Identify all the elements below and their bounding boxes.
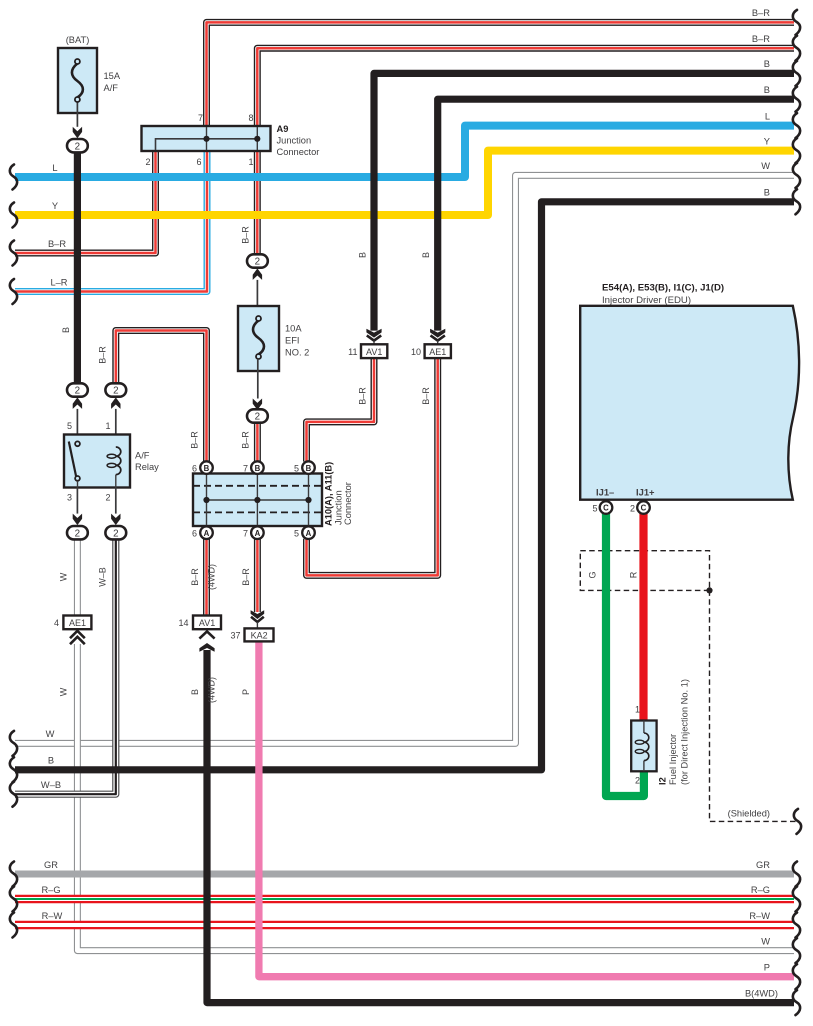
svg-text:(4WD): (4WD) xyxy=(207,677,217,703)
relay coil xyxy=(116,447,121,475)
wire L-R A9 pin6 net xyxy=(15,151,207,292)
connector oval 2 above EFI fuse xyxy=(247,254,268,267)
svg-text:3: 3 xyxy=(67,493,72,503)
svg-text:10: 10 xyxy=(411,347,421,357)
svg-text:W: W xyxy=(59,687,69,696)
fuse 10A EFI NO.2 xyxy=(238,306,279,371)
wire EFI fuse top lead xyxy=(256,280,258,316)
svg-text:B–R: B–R xyxy=(241,226,251,244)
svg-text:2: 2 xyxy=(630,504,635,514)
fuse element 10A EFI xyxy=(253,321,264,355)
svg-text:R–G: R–G xyxy=(751,885,770,895)
wire relay pin1 lead xyxy=(115,409,117,447)
svg-text:B: B xyxy=(48,756,54,766)
wire P net xyxy=(259,641,794,977)
break symbol B-R left xyxy=(10,241,17,266)
svg-text:2: 2 xyxy=(255,257,260,268)
svg-text:B–R: B–R xyxy=(752,34,770,44)
svg-text:2: 2 xyxy=(255,412,260,423)
svg-text:5: 5 xyxy=(67,421,72,431)
break symbol shield right xyxy=(794,809,801,834)
svg-text:B–R: B–R xyxy=(421,387,431,405)
svg-text:4: 4 xyxy=(54,618,59,628)
connector box 4 AE1 xyxy=(63,616,91,630)
break symbol R-G right xyxy=(793,887,800,912)
break symbol Y left xyxy=(10,203,17,228)
wire B-R 11AV1 to A10 5B xyxy=(307,358,375,461)
svg-text:B–R: B–R xyxy=(752,8,770,18)
wire G net xyxy=(606,513,644,796)
svg-text:C: C xyxy=(603,504,609,513)
svg-text:B–R: B–R xyxy=(48,239,66,249)
connector arrow into oval below BAT fuse xyxy=(73,127,82,139)
pin circle A10 5A xyxy=(302,526,315,539)
svg-text:L: L xyxy=(765,111,770,121)
svg-text:11: 11 xyxy=(348,347,357,357)
svg-text:R–G: R–G xyxy=(41,885,60,895)
wire relay pin5 lead xyxy=(76,409,78,442)
break symbol R-G left xyxy=(10,887,17,912)
svg-text:5: 5 xyxy=(294,529,299,539)
break symbol W left xyxy=(10,731,17,756)
connector arrow into oval relay pin3 xyxy=(73,514,82,526)
wire B-R EFI fuse to A10 7B xyxy=(254,423,261,462)
wire B to 10AE1 net xyxy=(438,99,794,330)
svg-text:R–W: R–W xyxy=(749,911,770,921)
junction connector A9 xyxy=(142,126,271,151)
svg-text:IJ1+: IJ1+ xyxy=(636,487,655,498)
svg-text:B–R: B–R xyxy=(98,346,108,364)
svg-text:Fuel Injector: Fuel Injector xyxy=(668,734,678,785)
injector coil xyxy=(644,733,649,761)
svg-text:P: P xyxy=(764,963,770,973)
wire B-R top2 net xyxy=(257,48,794,126)
pin circle EDU IJ1+ pin C xyxy=(637,501,650,514)
svg-text:Junction: Junction xyxy=(277,136,312,146)
svg-text:B–R: B–R xyxy=(190,568,200,586)
break symbol L left xyxy=(10,165,17,190)
svg-text:14: 14 xyxy=(178,618,188,628)
svg-text:5: 5 xyxy=(592,504,597,514)
wire A9 pin7 inner xyxy=(206,127,208,150)
connector double-arrow into 37KA2 xyxy=(251,610,265,619)
connector oval 2 below EFI fuse xyxy=(247,409,268,422)
svg-text:A/F: A/F xyxy=(135,451,150,461)
svg-text:B: B xyxy=(306,464,312,473)
wire A10 inner bus xyxy=(207,499,309,501)
wire W below 4AE1 net xyxy=(77,644,794,951)
junction dot A10 node 6 xyxy=(203,497,209,503)
svg-text:2: 2 xyxy=(75,386,80,397)
svg-text:B: B xyxy=(764,59,770,69)
svg-text:W: W xyxy=(59,572,69,581)
break symbol P right xyxy=(793,964,800,989)
wire B to 11AV1 net xyxy=(374,73,794,330)
wire B-R A9 pin1 to oval xyxy=(254,151,261,255)
wire B-R relay pin1 to A10 6B xyxy=(116,331,207,462)
connector double-arrow into 11AV1 xyxy=(366,329,381,338)
svg-text:B: B xyxy=(204,464,210,473)
junction dot A9 node pin7 xyxy=(203,136,209,142)
svg-text:B–R: B–R xyxy=(358,387,368,405)
svg-text:8: 8 xyxy=(248,113,253,123)
pin circle A10 6A xyxy=(200,526,213,539)
svg-text:R: R xyxy=(629,571,639,578)
svg-text:1: 1 xyxy=(635,705,640,715)
break symbol B(4WD) right xyxy=(793,990,800,1015)
pin circle A10 7B xyxy=(251,461,264,474)
junction dot A10 node 7 xyxy=(254,497,260,503)
junction dot shield junction xyxy=(706,587,712,593)
break symbol B right xyxy=(793,189,800,214)
connector box 10 AE1 xyxy=(425,344,451,358)
wire R-W net xyxy=(15,921,794,929)
break symbol B right xyxy=(793,87,800,112)
junction dot A9 node pin8 xyxy=(254,136,260,142)
svg-text:B: B xyxy=(61,327,71,333)
svg-text:A/F: A/F xyxy=(104,83,119,93)
connector oval 2 below relay pin3 xyxy=(67,526,88,539)
svg-text:G: G xyxy=(588,571,598,578)
svg-text:AE1: AE1 xyxy=(69,618,86,628)
svg-text:L–R: L–R xyxy=(50,277,67,287)
connector box 37 KA2 xyxy=(245,628,274,641)
svg-text:E54(A), E53(B), I1(C), J1(D): E54(A), E53(B), I1(C), J1(D) xyxy=(602,283,724,294)
svg-text:A9: A9 xyxy=(277,124,289,134)
wire B net right xyxy=(15,202,794,770)
svg-text:IJ1–: IJ1– xyxy=(596,487,614,498)
wire injector top lead xyxy=(643,721,645,734)
svg-text:(BAT): (BAT) xyxy=(66,35,90,45)
svg-text:Relay: Relay xyxy=(135,462,159,472)
svg-text:AV1: AV1 xyxy=(366,347,382,357)
fuse element 15A A/F xyxy=(72,64,83,98)
wire W-B net xyxy=(15,539,116,794)
svg-text:Injector Driver (EDU): Injector Driver (EDU) xyxy=(602,295,691,306)
svg-text:GR: GR xyxy=(44,860,58,870)
wire B-R top1 net xyxy=(207,22,795,126)
connector arrow into oval relay pin2 xyxy=(111,514,120,526)
pin circle A10 5B xyxy=(302,461,315,474)
svg-text:Y: Y xyxy=(52,201,58,211)
pin circle EDU IJ1- pin C xyxy=(600,501,613,514)
connector oval 2 below relay pin2 xyxy=(105,526,126,539)
wire B-R A10 7A to 37KA2 xyxy=(254,539,261,612)
svg-text:(for Direct Injection No. 1): (for Direct Injection No. 1) xyxy=(680,679,690,785)
wire R-G net xyxy=(15,895,794,903)
wire A10 pin6 inner xyxy=(206,474,208,526)
fuse 15A A/F (BAT) xyxy=(58,48,97,113)
wire L net xyxy=(15,126,794,177)
svg-text:2: 2 xyxy=(113,528,118,539)
svg-text:AV1: AV1 xyxy=(199,618,215,628)
svg-text:I2: I2 xyxy=(658,777,668,785)
svg-text:A10(A), A11(B): A10(A), A11(B) xyxy=(324,462,334,526)
break symbol W right xyxy=(793,163,800,188)
connector box 14 AV1 xyxy=(193,616,221,630)
break symbol B right xyxy=(793,61,800,86)
connector oval 2 above relay pin1 xyxy=(105,383,126,396)
break symbol B-R right xyxy=(793,36,800,61)
break symbol GR right xyxy=(793,862,800,887)
svg-text:Y: Y xyxy=(764,136,770,146)
svg-text:1: 1 xyxy=(248,157,253,167)
wire fuse lead xyxy=(76,100,78,127)
wire A9 inner bus xyxy=(156,139,259,150)
svg-text:GR: GR xyxy=(756,860,770,870)
break symbol L right xyxy=(793,113,800,138)
svg-text:15A: 15A xyxy=(104,71,121,81)
svg-text:(Shielded): (Shielded) xyxy=(728,809,770,819)
svg-text:2: 2 xyxy=(105,493,110,503)
svg-text:B: B xyxy=(764,188,770,198)
wire relay pin3 inner lead xyxy=(77,481,79,488)
svg-text:6: 6 xyxy=(196,157,201,167)
svg-text:7: 7 xyxy=(243,529,248,539)
svg-text:B: B xyxy=(190,689,200,695)
svg-text:KA2: KA2 xyxy=(251,631,268,641)
wire W relay pin3 net xyxy=(74,539,81,615)
svg-text:Junction: Junction xyxy=(334,490,344,525)
wire B-R A9 pin2 net xyxy=(15,151,156,253)
svg-text:B–R: B–R xyxy=(241,568,251,586)
connector oval 2 above relay pin5 xyxy=(67,383,88,396)
svg-text:6: 6 xyxy=(192,464,197,474)
svg-text:2: 2 xyxy=(75,141,80,152)
junction connector A10(A) A11(B) xyxy=(193,474,322,527)
svg-text:A: A xyxy=(306,529,312,538)
svg-text:NO. 2: NO. 2 xyxy=(285,348,309,358)
wire R net xyxy=(639,513,647,721)
connector double-arrow into 10AE1 xyxy=(430,329,445,338)
svg-text:W: W xyxy=(46,729,55,739)
svg-text:2: 2 xyxy=(75,528,80,539)
svg-text:C: C xyxy=(641,504,647,513)
svg-text:L: L xyxy=(52,163,57,173)
wire W bottom net xyxy=(15,175,794,743)
svg-text:B: B xyxy=(764,85,770,95)
svg-text:W: W xyxy=(761,936,770,946)
shield dashed box xyxy=(580,551,709,591)
svg-text:Connector: Connector xyxy=(277,147,320,157)
svg-text:B: B xyxy=(358,252,368,258)
connector double-arrow below 14AV1 xyxy=(199,631,214,638)
break symbol W-B left xyxy=(10,782,17,807)
svg-text:7: 7 xyxy=(198,113,203,123)
svg-text:B: B xyxy=(255,464,261,473)
wire A10 pin5 inner xyxy=(308,474,310,526)
svg-text:B(4WD): B(4WD) xyxy=(745,988,778,998)
connector arrow into oval relay pin5 xyxy=(73,397,82,409)
break symbol W right xyxy=(793,938,800,963)
wire B(4WD) net xyxy=(207,650,794,1003)
svg-text:EFI: EFI xyxy=(285,336,299,346)
wire relay pin2 lead xyxy=(115,488,117,514)
break symbol GR left xyxy=(10,862,17,887)
svg-text:1: 1 xyxy=(105,421,110,431)
connector double-chevron below 4AE1 xyxy=(70,631,85,638)
svg-text:R–W: R–W xyxy=(42,911,63,921)
junction dot A10 node 5 xyxy=(305,497,311,503)
connector oval 2 below BAT fuse xyxy=(67,139,88,152)
svg-text:10A: 10A xyxy=(285,324,302,334)
connector arrow into oval above EFI fuse xyxy=(253,268,262,280)
svg-text:A: A xyxy=(255,529,261,538)
svg-text:W–B: W–B xyxy=(98,567,108,587)
svg-text:7: 7 xyxy=(243,464,248,474)
svg-text:6: 6 xyxy=(192,529,197,539)
connector box 11 AV1 xyxy=(361,344,387,358)
wire relay pin3 lead xyxy=(76,488,78,514)
svg-text:AE1: AE1 xyxy=(429,347,446,357)
shield dashed wire xyxy=(710,590,797,821)
wire A9 pin1 inner xyxy=(256,127,258,150)
wire Y net xyxy=(15,151,794,215)
pin circle A10 6B xyxy=(200,461,213,474)
connector arrow into oval below EFI fuse xyxy=(253,399,262,411)
injector driver EDU box xyxy=(580,306,799,500)
break symbol B left xyxy=(10,757,17,782)
svg-text:2: 2 xyxy=(113,386,118,397)
svg-text:W: W xyxy=(761,161,770,171)
wire injector bottom lead xyxy=(643,761,645,772)
svg-text:(4WD): (4WD) xyxy=(207,564,217,590)
break symbol B-R right xyxy=(793,10,800,35)
break symbol L-R left xyxy=(10,279,17,304)
wire EFI fuse bottom lead xyxy=(257,359,259,399)
svg-text:37: 37 xyxy=(230,631,240,641)
svg-text:B–R: B–R xyxy=(190,431,200,449)
wire A10 pin7 inner xyxy=(256,474,258,526)
fuel injector I2 xyxy=(631,721,656,772)
svg-text:5: 5 xyxy=(294,464,299,474)
break symbol Y right xyxy=(793,138,800,163)
svg-text:P: P xyxy=(241,689,251,695)
relay switch contact xyxy=(69,442,76,477)
svg-text:B–R: B–R xyxy=(241,431,251,449)
svg-text:B: B xyxy=(421,252,431,258)
svg-text:2: 2 xyxy=(145,157,150,167)
wire B fuse to relay xyxy=(74,152,81,383)
relay A/F Relay xyxy=(64,435,130,488)
svg-text:A: A xyxy=(204,529,210,538)
svg-text:W–B: W–B xyxy=(41,780,61,790)
pin circle A10 7A xyxy=(251,526,264,539)
wire relay coil bottom lead xyxy=(115,475,117,488)
svg-text:2: 2 xyxy=(635,776,640,786)
connector arrow into oval relay pin1 xyxy=(111,397,120,409)
break symbol R-W right xyxy=(793,913,800,938)
wire B-R 10AE1 to A10 5A xyxy=(307,358,438,575)
break symbol R-W left xyxy=(10,913,17,938)
wire B-R A10 6A to 14AV1 xyxy=(203,539,210,616)
wire GR net xyxy=(15,871,794,878)
svg-text:Connector: Connector xyxy=(343,482,353,525)
